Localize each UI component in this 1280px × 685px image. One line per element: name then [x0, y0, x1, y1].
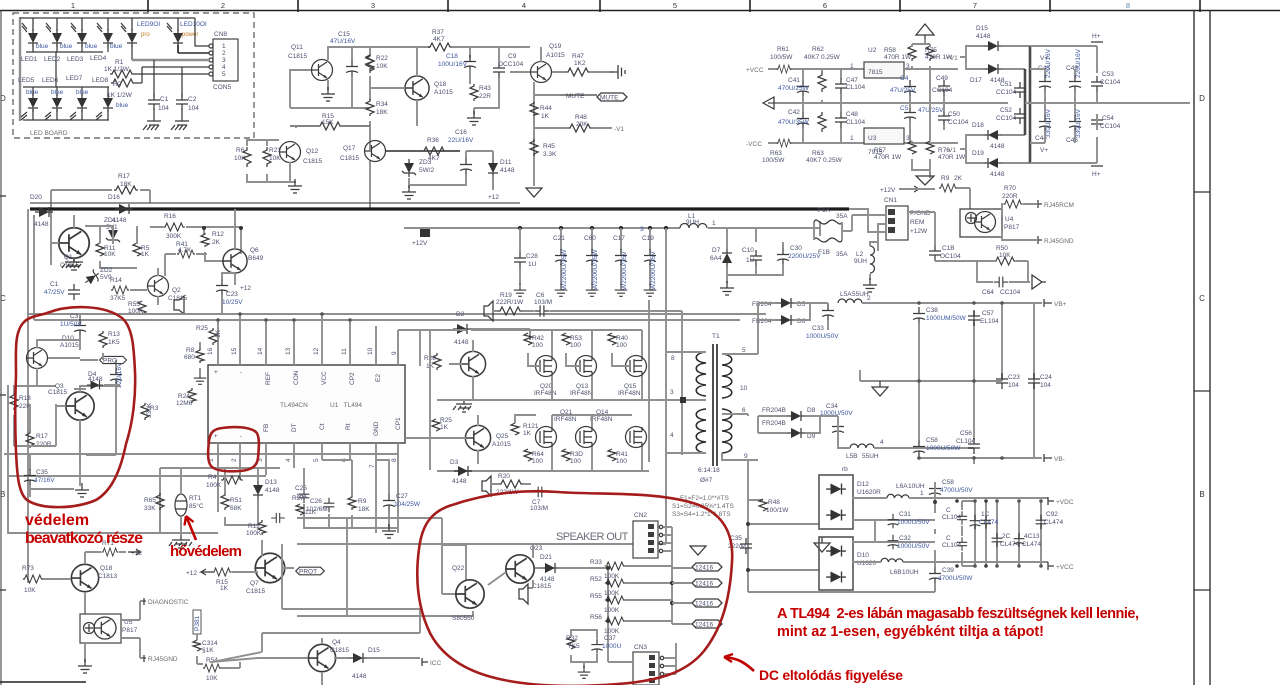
svg-text:35A: 35A — [836, 251, 848, 258]
resistor R20 — [499, 480, 523, 488]
svg-text:C1815: C1815 — [48, 389, 68, 396]
net tag PROT — [100, 356, 127, 364]
svg-text:C: C — [946, 535, 951, 542]
svg-text:C17: C17 — [613, 235, 625, 242]
svg-text:12416: 12416 — [695, 622, 713, 629]
svg-text:C: C — [0, 294, 6, 303]
svg-text:Ct: Ct — [319, 423, 326, 430]
svg-text:D21: D21 — [540, 554, 552, 561]
svg-text:1U: 1U — [746, 257, 755, 264]
resistor R56 — [605, 617, 625, 625]
diode D8 FR204 — [787, 411, 805, 421]
wire +VCC rail — [768, 69, 1008, 143]
svg-text:D15: D15 — [368, 647, 380, 654]
svg-text:104: 104 — [158, 105, 169, 112]
capacitor C1 — [148, 94, 160, 110]
wire speaker net — [297, 518, 633, 616]
svg-text:3: 3 — [640, 226, 644, 233]
resistor R37 — [428, 43, 452, 51]
power arrow up — [916, 24, 934, 39]
LED7 — [77, 94, 87, 112]
svg-text:1K: 1K — [220, 585, 229, 592]
svg-text:R1: R1 — [115, 59, 124, 66]
wire rows — [8, 468, 280, 533]
diode D17 — [984, 64, 1002, 74]
svg-text:C27: C27 — [396, 493, 408, 500]
ground triangle VB — [872, 381, 888, 396]
svg-text:22R: 22R — [479, 93, 491, 100]
resistor R48 — [759, 499, 767, 511]
svg-text:mint az 1-esen, egyébként tilt: mint az 1-esen, egyébként tiltja a tápot… — [777, 624, 1044, 640]
capacitor C7 — [533, 487, 547, 498]
svg-text:B: B — [1199, 490, 1204, 499]
svg-text:C: C — [1199, 294, 1205, 303]
svg-text:1000U/50V: 1000U/50V — [820, 410, 853, 417]
svg-text:P817: P817 — [122, 627, 138, 634]
svg-text:4148: 4148 — [454, 339, 469, 346]
svg-text:U2: U2 — [868, 47, 877, 54]
svg-text:2: 2 — [867, 295, 871, 302]
CN8 pins — [209, 44, 213, 76]
mosfet Q21 — [536, 427, 557, 448]
resistor R4 — [221, 476, 243, 484]
cap grid verticals — [975, 501, 1041, 566]
svg-text:15: 15 — [231, 347, 238, 355]
ground under Q16b — [75, 483, 89, 497]
fuse F1A — [814, 220, 842, 224]
svg-text:R9: R9 — [941, 175, 950, 182]
svg-text:100K: 100K — [604, 590, 620, 597]
svg-text:CC104: CC104 — [996, 89, 1017, 96]
resistor R43 — [470, 84, 478, 101]
svg-text:10/25V: 10/25V — [222, 299, 243, 306]
svg-text:C28: C28 — [526, 253, 538, 260]
resistor R64b — [818, 112, 826, 132]
svg-text:A1015: A1015 — [546, 52, 565, 59]
wire: LED row2 rails — [23, 87, 109, 120]
svg-text:D18: D18 — [972, 122, 984, 129]
resistor R14 — [111, 286, 129, 294]
svg-text:C30: C30 — [790, 245, 802, 252]
svg-text:DC eltolódás figyelése: DC eltolódás figyelése — [759, 667, 903, 683]
svg-text:D17: D17 — [970, 77, 982, 84]
svg-text:D12: D12 — [857, 481, 869, 488]
svg-text:55UH: 55UH — [862, 453, 879, 460]
wire: thick main bus — [30, 207, 849, 210]
svg-text:3: 3 — [906, 135, 910, 142]
svg-text:SPEAKER OUT: SPEAKER OUT — [556, 531, 629, 543]
speaker stub — [482, 476, 491, 496]
svg-text:10K: 10K — [376, 63, 388, 70]
svg-text:C5: C5 — [900, 105, 909, 112]
connector CN2 — [633, 521, 658, 558]
capacitor C18 — [464, 55, 476, 71]
svg-text:47U/16V: 47U/16V — [330, 38, 356, 45]
capacitor C19 — [649, 228, 651, 285]
diode D21 — [541, 563, 559, 573]
svg-text:U4: U4 — [1005, 216, 1014, 223]
svg-text:Q15: Q15 — [624, 383, 637, 390]
svg-text:R34: R34 — [376, 101, 388, 108]
transistor Q12 — [280, 142, 301, 163]
svg-text:10K: 10K — [999, 252, 1011, 259]
capacitor C49 — [938, 80, 950, 96]
svg-text:D10: D10 — [857, 552, 869, 559]
net tag hex4 — [692, 620, 722, 629]
svg-text:4C13: 4C13 — [1024, 533, 1040, 540]
net DIAGNOSTIC — [121, 601, 146, 620]
svg-text:Ø#7: Ø#7 — [700, 477, 713, 484]
svg-text:33K: 33K — [144, 505, 156, 512]
svg-text:1: 1 — [850, 135, 854, 142]
svg-text:C1815: C1815 — [288, 53, 308, 60]
wire: LED row1 bottom rail — [26, 45, 178, 87]
wire: lines under IC — [4, 385, 398, 476]
svg-text:6A4: 6A4 — [710, 255, 722, 262]
svg-text:4700U/50W: 4700U/50W — [938, 575, 973, 582]
svg-text:D3: D3 — [450, 459, 459, 466]
resistor R27 — [296, 504, 304, 515]
inductor L6B — [881, 558, 903, 562]
resistor R28b — [433, 353, 441, 370]
svg-text:C1815: C1815 — [532, 583, 552, 590]
svg-text:11: 11 — [341, 348, 348, 355]
svg-text:R27: R27 — [292, 495, 304, 502]
resistor R25 — [209, 328, 217, 345]
svg-text:C1815: C1815 — [340, 155, 360, 162]
svg-text:100/5W: 100/5W — [770, 54, 793, 61]
capacitor C34 — [832, 420, 844, 436]
ground C2 — [171, 121, 189, 130]
svg-text:R13: R13 — [108, 331, 120, 338]
svg-text:Q13: Q13 — [576, 383, 589, 390]
wire Z-path to Q4 — [212, 544, 420, 662]
inductor L1 — [680, 224, 707, 229]
wire Q19 down — [534, 82, 560, 186]
svg-text:100: 100 — [532, 342, 543, 349]
svg-text:B: B — [0, 490, 5, 499]
svg-text:Q25: Q25 — [496, 433, 509, 440]
svg-text:5: 5 — [222, 71, 226, 78]
regulator U3 7915 — [864, 128, 904, 144]
diode D7 — [722, 249, 732, 267]
svg-text:4: 4 — [285, 458, 292, 462]
resistor R75 — [926, 44, 934, 61]
capacitor C31 — [888, 514, 899, 528]
resistor R22 — [366, 53, 374, 73]
svg-text:10K: 10K — [269, 155, 281, 162]
capacitor C33 — [822, 304, 834, 320]
capacitor C16 — [460, 158, 472, 174]
svg-text:hővédelem: hővédelem — [170, 543, 242, 560]
svg-text:védelem: védelem — [25, 512, 89, 529]
svg-text:4.7K: 4.7K — [178, 247, 192, 254]
thermistor RT1 — [175, 494, 187, 516]
IC bottom pin names — [214, 421, 380, 440]
svg-text:103/M: 103/M — [530, 505, 548, 512]
svg-text:CP1: CP1 — [395, 417, 402, 430]
resistor R17 — [26, 431, 34, 448]
mosfet Q15 — [626, 356, 647, 377]
svg-text:U1620R: U1620R — [857, 489, 881, 496]
capacitor C5 — [904, 106, 916, 122]
core — [713, 344, 717, 466]
svg-text:C49: C49 — [936, 75, 948, 82]
resistor R1 — [110, 70, 134, 78]
wire input rail — [708, 221, 820, 242]
svg-text:R9: R9 — [358, 498, 367, 505]
svg-text:CL104: CL104 — [942, 514, 962, 521]
capacitor 1C — [970, 515, 981, 529]
LED4 — [103, 29, 113, 47]
svg-text:R37: R37 — [432, 29, 444, 36]
ground triangle right — [814, 537, 830, 552]
svg-text:L6A: L6A — [896, 483, 908, 490]
wire: LED row1 top rail — [20, 18, 195, 31]
diode D19 — [984, 158, 1002, 168]
svg-text:4: 4 — [670, 432, 674, 439]
svg-text:47/25V: 47/25V — [44, 289, 65, 296]
resistor R24 — [188, 388, 196, 403]
diode D15b — [349, 653, 367, 663]
svg-text:10UH: 10UH — [908, 483, 925, 490]
svg-text:100K: 100K — [246, 530, 262, 537]
svg-text:Q18: Q18 — [434, 81, 447, 88]
svg-text:1K 1/2W: 1K 1/2W — [104, 66, 130, 73]
resistor R31 — [432, 419, 440, 431]
capacitor C51 — [1014, 82, 1026, 98]
svg-text:100U/16V: 100U/16V — [438, 61, 468, 68]
svg-text:C35: C35 — [36, 469, 48, 476]
svg-text:C3: C3 — [70, 313, 79, 320]
svg-text:C33: C33 — [812, 325, 824, 332]
ground Q1 — [62, 258, 83, 270]
svg-text:2: 2 — [231, 458, 238, 462]
resistor R73 — [23, 575, 43, 583]
svg-text:1K5: 1K5 — [108, 339, 120, 346]
vertical bus pair — [1025, 46, 1030, 163]
svg-text:C31: C31 — [899, 511, 911, 518]
svg-text:C64: C64 — [982, 289, 994, 296]
svg-text:RT1: RT1 — [189, 495, 202, 502]
svg-text:C47: C47 — [846, 77, 858, 84]
svg-text:C56: C56 — [960, 430, 972, 437]
svg-text:C15: C15 — [338, 31, 350, 38]
wires diode matrix — [960, 46, 1097, 163]
capacitor 4C13 — [1014, 533, 1025, 547]
ground ZD3 — [402, 185, 416, 199]
ground C1 — [143, 121, 161, 130]
connector CN8 — [213, 39, 238, 81]
svg-text:LED6: LED6 — [42, 77, 59, 84]
wire node — [369, 121, 371, 150]
net tag +VCC — [1048, 562, 1054, 570]
wire pin5 — [134, 60, 209, 97]
svg-text:220U/16V: 220U/16V — [1075, 48, 1082, 78]
svg-text:R62: R62 — [812, 46, 824, 53]
capacitor C16b — [271, 513, 285, 523]
regulator U2 7815 — [864, 62, 904, 78]
resistor R17 loop — [51, 190, 150, 253]
svg-text:Rt: Rt — [345, 423, 352, 430]
frame: right border dividers — [1194, 192, 1210, 590]
svg-text:P381: P381 — [194, 615, 201, 631]
svg-text:6: 6 — [742, 407, 746, 414]
svg-text:1U/50V: 1U/50V — [60, 321, 82, 328]
transistor Q6 — [223, 249, 247, 273]
svg-text:LED9OI: LED9OI — [137, 21, 160, 28]
transistor Q2 — [148, 276, 169, 297]
svg-text:D: D — [1199, 94, 1205, 103]
svg-text:85°C: 85°C — [189, 502, 204, 510]
diode D18 — [984, 130, 1002, 140]
transistor Q18 — [71, 564, 98, 591]
transistor Q7 — [255, 553, 284, 582]
resistor R47 — [566, 68, 590, 76]
svg-text:C25: C25 — [295, 485, 307, 492]
svg-text:10K: 10K — [24, 587, 36, 594]
svg-text:blue: blue — [60, 43, 73, 50]
svg-text:R36: R36 — [427, 137, 439, 144]
wire to -V1 — [534, 127, 568, 129]
svg-text:beavatkozó része: beavatkozó része — [25, 530, 143, 547]
svg-text:1U: 1U — [528, 261, 537, 268]
frame: bottom-left line — [0, 681, 86, 683]
svg-text:C4: C4 — [900, 75, 909, 82]
svg-text:1000U/50V: 1000U/50V — [897, 543, 930, 550]
net tag hex2 — [692, 579, 722, 588]
transistor Q10 — [27, 348, 48, 369]
fuse F1B — [814, 238, 842, 242]
resistor R11 — [96, 243, 104, 256]
svg-text:C50: C50 — [948, 111, 960, 118]
diode D10b — [79, 341, 81, 343]
svg-text:C41: C41 — [788, 77, 800, 84]
svg-text:PRO: PRO — [103, 358, 117, 365]
svg-text:47U/25V: 47U/25V — [890, 87, 916, 94]
red arrow hovedelem — [186, 516, 196, 540]
primary winding upper — [696, 352, 706, 396]
svg-text:100: 100 — [570, 458, 581, 465]
svg-text:H+: H+ — [1092, 33, 1101, 40]
svg-text:C92: C92 — [1046, 511, 1058, 518]
svg-text:C6: C6 — [536, 292, 545, 299]
svg-text:C58: C58 — [926, 437, 938, 444]
svg-text:R57: R57 — [874, 147, 886, 154]
svg-text:C48: C48 — [846, 111, 858, 118]
LED arrows row2 — [21, 112, 102, 120]
svg-text:Q23: Q23 — [530, 545, 543, 552]
svg-text:CP2: CP2 — [349, 372, 356, 385]
svg-text:470R 1W: 470R 1W — [884, 54, 912, 61]
svg-text:18K: 18K — [358, 506, 370, 513]
svg-text:C1: C1 — [160, 96, 169, 103]
svg-text:V+: V+ — [1040, 55, 1048, 62]
svg-text:C: C — [946, 507, 951, 514]
net tag VB+ — [1044, 299, 1052, 307]
bus joints — [917, 301, 1004, 460]
connector CN3 — [633, 652, 659, 685]
resistor R34 — [366, 99, 374, 116]
svg-text:Q1: Q1 — [64, 254, 73, 261]
svg-text:18K: 18K — [120, 181, 132, 188]
svg-text:LED4: LED4 — [90, 55, 107, 62]
svg-text:220R: 220R — [1002, 193, 1018, 200]
capacitor C37 — [591, 638, 602, 653]
LED6 — [52, 94, 62, 112]
capacitor C46 — [1069, 115, 1081, 131]
svg-text:C38: C38 — [926, 307, 938, 314]
svg-text:4: 4 — [880, 439, 884, 446]
resistor R12 — [201, 233, 209, 247]
svg-text:7815: 7815 — [868, 69, 883, 76]
svg-text:-V1: -V1 — [614, 126, 625, 133]
capacitor C35b — [24, 469, 36, 485]
capacitor C28 — [519, 228, 521, 285]
resistor R21 — [263, 147, 271, 167]
capacitor C21 — [560, 228, 562, 285]
svg-text:R12: R12 — [212, 231, 224, 238]
svg-text:5W/2: 5W/2 — [419, 167, 435, 174]
resistor R36 — [422, 147, 446, 155]
mosfet Q13 — [576, 356, 597, 377]
svg-text:+: + — [214, 434, 218, 440]
wire rails right — [1025, 46, 1190, 163]
capacitor C30 — [777, 248, 789, 264]
frame: left border — [0, 196, 6, 590]
resistor R76 — [926, 141, 934, 154]
resistor R33 — [605, 562, 625, 570]
svg-text:IRF48N: IRF48N — [554, 416, 577, 423]
capacitor C41 — [797, 80, 809, 96]
capacitor C57 — [968, 310, 980, 326]
svg-text:Q17: Q17 — [343, 145, 356, 152]
resistor R9b — [348, 495, 356, 510]
svg-text:1K: 1K — [541, 113, 550, 120]
svg-text:100: 100 — [570, 342, 581, 349]
svg-text:+12: +12 — [240, 285, 251, 292]
svg-text:-V1: -V1 — [946, 147, 957, 154]
svg-text:blue: blue — [36, 43, 49, 50]
transistor Q16b — [66, 392, 94, 420]
svg-text:100/5W: 100/5W — [762, 157, 785, 164]
svg-text:3: 3 — [371, 1, 375, 10]
capacitor C4 — [904, 80, 916, 96]
svg-text:4700U/50V: 4700U/50V — [940, 487, 973, 494]
svg-text:4148: 4148 — [352, 673, 367, 680]
resistor R41 — [177, 250, 195, 258]
svg-text:C9: C9 — [508, 53, 517, 60]
IC top pin stubs — [218, 314, 420, 365]
svg-text:L6B: L6B — [890, 569, 902, 576]
svg-text:R55: R55 — [590, 593, 602, 600]
svg-text:R33: R33 — [590, 559, 602, 566]
svg-text:1: 1 — [71, 1, 75, 10]
svg-text:D8: D8 — [807, 407, 816, 414]
svg-text:§1K: §1K — [202, 647, 214, 654]
resistor R40 — [608, 333, 616, 345]
capacitor C23b — [216, 279, 228, 295]
svg-text:LED5: LED5 — [18, 77, 35, 84]
diode D15 — [984, 41, 1002, 51]
svg-text:CC104: CC104 — [996, 115, 1017, 122]
svg-text:1K: 1K — [141, 251, 150, 258]
resistor R3D — [562, 449, 570, 461]
diode D20 — [35, 207, 53, 217]
svg-text:E2: E2 — [375, 374, 382, 382]
capacitor C44 — [1039, 115, 1051, 131]
svg-text:Q18: Q18 — [100, 565, 113, 572]
